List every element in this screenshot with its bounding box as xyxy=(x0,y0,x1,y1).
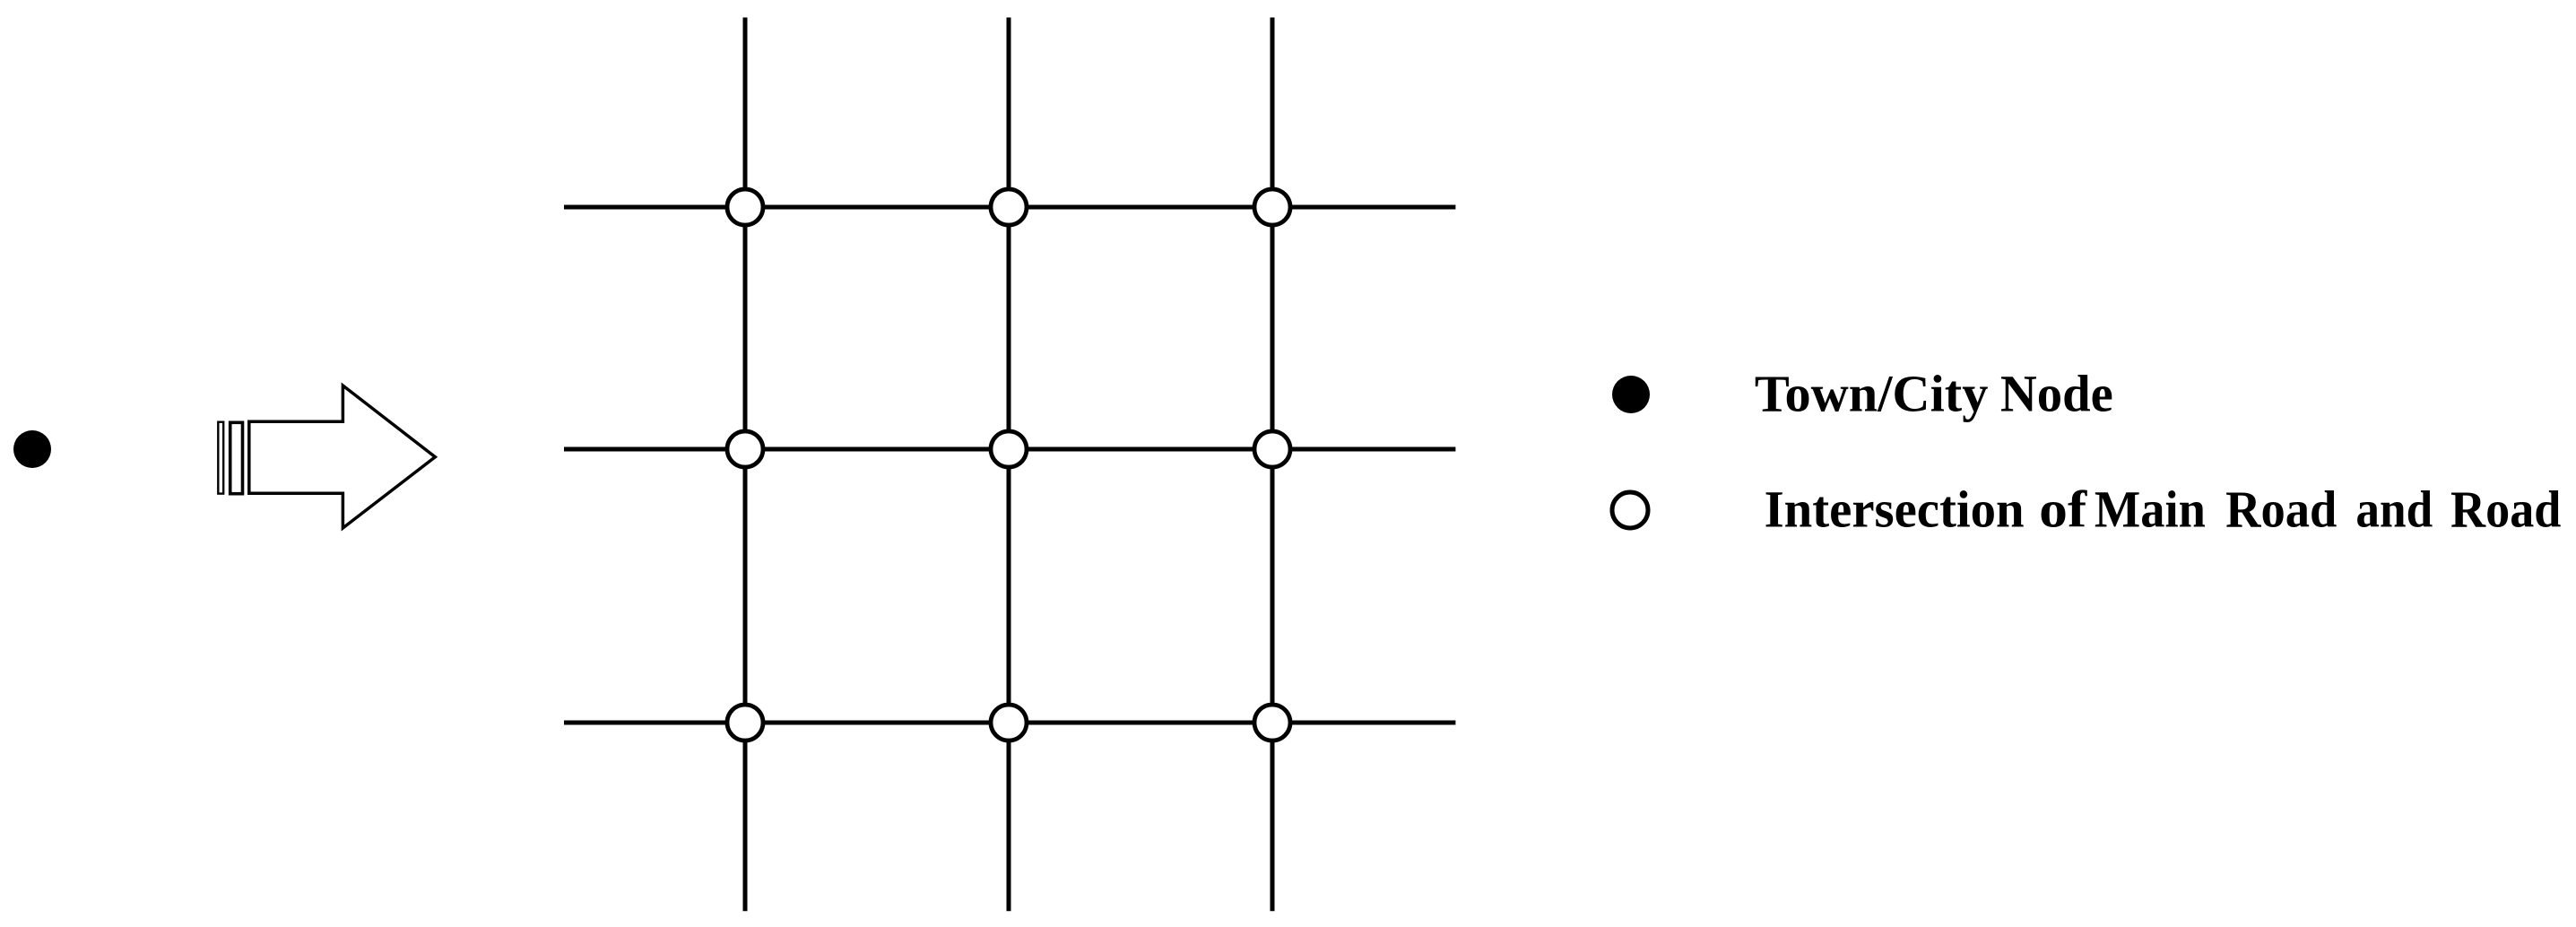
intersection node r1c3 xyxy=(1254,189,1290,225)
wire: vertical road 3 xyxy=(1271,18,1275,912)
wire: vertical road 2 xyxy=(1007,18,1011,912)
legend open circle symbol xyxy=(1612,492,1648,528)
intersection node r2c3 xyxy=(1254,431,1290,467)
svg-text:Node: Node xyxy=(2000,365,2113,423)
intersection node r1c1 xyxy=(727,189,763,225)
svg-text:Road: Road xyxy=(2225,481,2337,539)
wire: horizontal main road 1 xyxy=(564,205,1455,210)
svg-text:and: and xyxy=(2355,481,2433,539)
intersection node r3c2 xyxy=(991,705,1027,741)
intersection node r2c2 xyxy=(991,431,1027,467)
legend filled dot symbol xyxy=(1612,376,1650,413)
intersection node r3c1 xyxy=(727,705,763,741)
svg-text:of: of xyxy=(2039,481,2087,539)
intersection node r2c1 xyxy=(727,431,763,467)
wire: horizontal main road 2 xyxy=(564,447,1455,452)
wire: horizontal main road 3 xyxy=(564,721,1455,725)
svg-text:Intersection: Intersection xyxy=(1765,481,2025,539)
wire: vertical road 1 xyxy=(743,18,748,912)
arrow tail bar 1 (thin) xyxy=(218,422,223,494)
svg-text:Road: Road xyxy=(2450,481,2561,539)
intersection node r1c2 xyxy=(991,189,1027,225)
svg-text:Town/City: Town/City xyxy=(1755,365,1988,423)
svg-text:Main: Main xyxy=(2095,481,2206,539)
town/city node dot (single node before transformation) xyxy=(13,430,51,468)
block arrow (transformation) xyxy=(249,386,436,528)
intersection node r3c3 xyxy=(1254,705,1290,741)
arrow tail bar 2 xyxy=(230,422,243,493)
